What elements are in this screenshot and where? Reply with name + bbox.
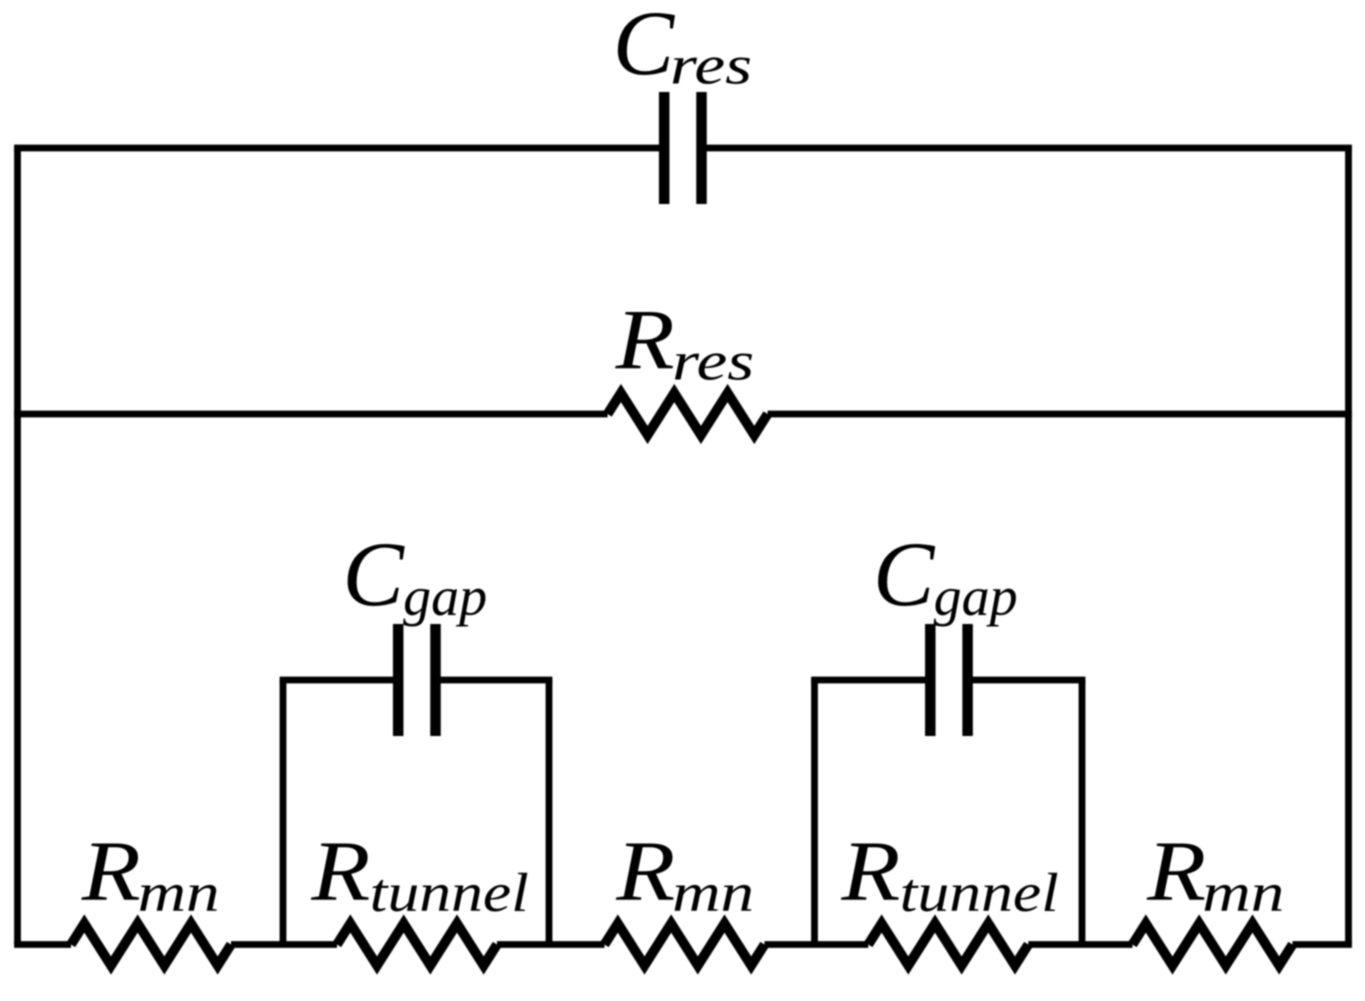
svg-text:C: C (613, 0, 676, 94)
svg-text:mn: mn (1202, 862, 1284, 923)
label R_mn 3 (1146, 823, 1284, 923)
svg-text:R: R (840, 823, 900, 919)
wire: top-right horizontal (C_res to right node) (702, 145, 1352, 152)
svg-text:gap: gap (403, 566, 487, 627)
svg-text:res: res (672, 331, 754, 392)
svg-text:R: R (615, 823, 675, 919)
label C_res (613, 0, 752, 96)
wire: bottom segment R_mn1 to R_tunnel1 (through box1 corner) (231, 941, 337, 948)
wire: bottom segment left rail to R_mn1 (14, 941, 71, 948)
wire: box2 top-left horizontal to C_gap2 (811, 677, 930, 684)
svg-text:R: R (81, 823, 141, 919)
svg-text:R: R (615, 291, 675, 387)
svg-text:tunnel: tunnel (900, 862, 1059, 923)
label R_mn 2 (615, 823, 754, 923)
wire: box1 right vertical down to node between R_tunnel1 and R_mn2 (546, 680, 553, 945)
resistor R_tunnel #1 (zigzag) (337, 924, 497, 966)
svg-text:mn: mn (138, 862, 220, 923)
label C_gap 1 (343, 523, 488, 627)
resistor R_res (zigzag) (608, 393, 768, 435)
svg-text:R: R (1146, 823, 1206, 919)
svg-text:C: C (343, 523, 406, 625)
svg-text:gap: gap (934, 566, 1018, 627)
svg-text:mn: mn (672, 862, 754, 923)
wire: box1 top-right horizontal from C_gap1 (436, 677, 553, 684)
wire: box2 left vertical (node between R_mn2 and R_tunnel2 up to C_gap2) (811, 680, 818, 945)
label R_tunnel 2 (840, 823, 1059, 924)
svg-text:tunnel: tunnel (370, 862, 529, 923)
wire: box2 right vertical down to node between R_tunnel2 and R_mn3 (1079, 680, 1086, 945)
resistor R_mn #2 (zigzag) (605, 924, 765, 966)
wire: bottom segment R_tunnel2 to R_mn3 (1028, 941, 1132, 948)
wire: top-left horizontal (left node to C_res) (14, 145, 664, 152)
svg-text:R: R (310, 823, 370, 919)
wire: bottom segment R_mn2 to R_tunnel2 (765, 941, 869, 948)
svg-text:res: res (670, 35, 752, 96)
label C_gap 2 (873, 523, 1018, 627)
wire: left vertical rail (14, 148, 21, 945)
wire: middle-left horizontal (left rail to R_res) (14, 411, 608, 418)
wire: bottom segment R_mn3 to right rail (1293, 941, 1352, 948)
label R_res (615, 291, 755, 392)
resistor R_mn #3 (zigzag) (1133, 924, 1293, 966)
wire: box1 top-left horizontal to C_gap1 (280, 677, 399, 684)
resistor R_tunnel #2 (zigzag) (868, 924, 1028, 966)
wire: box2 top-right horizontal from C_gap2 (968, 677, 1086, 684)
label R_mn 1 (81, 823, 220, 923)
capacitor C_gap #2 (plates) (930, 624, 967, 736)
capacitor C_res (plates) (664, 92, 701, 204)
capacitor C_gap #1 (plates) (398, 624, 435, 736)
wire: bottom segment R_tunnel1 to R_mn2 (497, 941, 605, 948)
wire: box1 left vertical (node between R_mn1 and R_tunnel1 up to C_gap1) (280, 680, 287, 945)
label R_tunnel 1 (310, 823, 529, 924)
resistor R_mn #1 (zigzag) (71, 924, 231, 966)
svg-text:C: C (873, 523, 936, 625)
wire: right vertical rail (1345, 148, 1352, 945)
wire: middle-right horizontal (R_res to right rail) (768, 411, 1352, 418)
